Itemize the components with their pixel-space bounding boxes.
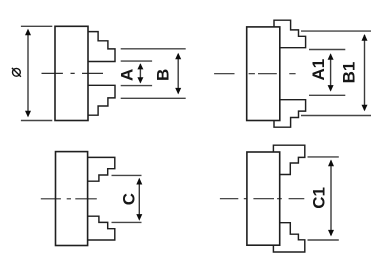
arrowhead C down [136, 214, 142, 221]
chuck body view3 [56, 152, 88, 246]
centerline view4 [220, 198, 304, 200]
arrowhead B up [175, 53, 181, 60]
centerline view1 [42, 72, 104, 74]
jaw top view3 [88, 157, 115, 181]
extension line A top [121, 60, 152, 62]
svg-text:C: C [119, 193, 138, 205]
svg-text:B: B [154, 69, 173, 81]
dimension line A [139, 64, 141, 82]
arrowhead A1 down [328, 85, 334, 92]
dimension line B1 [364, 35, 366, 110]
centerline view2 [214, 73, 296, 75]
arrowhead A down [137, 77, 143, 83]
extension line B1 top [301, 30, 371, 32]
jaw bottom view3 [88, 216, 115, 240]
extension line dia top [21, 25, 52, 27]
chuck body view1 [55, 26, 88, 120]
chuck body view2 [247, 27, 280, 121]
extension line dia bottom [21, 120, 52, 122]
jaw top view4 [273, 145, 304, 174]
dimension line dia [27, 31, 29, 116]
arrowhead A1 up [328, 53, 334, 60]
svg-text:B1: B1 [340, 62, 359, 84]
jaw top view1 [88, 32, 115, 62]
dimension line A1 [330, 55, 332, 91]
dimension line C1 [330, 161, 332, 236]
centerline view3 [41, 198, 97, 200]
extension line B top [121, 48, 186, 50]
arrowhead A up [137, 63, 143, 69]
extension line B bottom [121, 97, 186, 99]
svg-text:C1: C1 [309, 187, 328, 209]
arrowhead B1 up [362, 34, 368, 41]
jaw top view2 [274, 20, 306, 48]
arrowhead C up [136, 178, 142, 185]
dimension line C [138, 179, 140, 219]
jaw bottom view1 [88, 85, 115, 115]
jaw bottom view2 [274, 100, 306, 128]
arrowhead C1 down [328, 230, 334, 237]
extension line B1 bottom [301, 115, 371, 117]
arrowhead dia down [25, 111, 31, 118]
arrowhead dia up [25, 29, 31, 36]
extension line A1 bottom [309, 94, 345, 96]
extension line C1 top [308, 156, 339, 158]
jaw bottom view4 [273, 223, 304, 252]
extension line C bottom [112, 221, 142, 223]
diameter symbol [12, 68, 21, 77]
arrowhead C1 up [328, 160, 334, 167]
extension line C top [112, 174, 142, 176]
arrowhead B1 down [362, 105, 368, 112]
svg-text:A1: A1 [309, 59, 328, 81]
svg-text:A: A [118, 69, 137, 81]
arrowhead B down [175, 88, 181, 95]
chuck body view4 [247, 152, 280, 245]
extension line C1 bottom [308, 239, 339, 241]
extension line A bottom [121, 85, 152, 87]
extension line A1 top [309, 49, 345, 51]
dimension line B [177, 54, 179, 93]
